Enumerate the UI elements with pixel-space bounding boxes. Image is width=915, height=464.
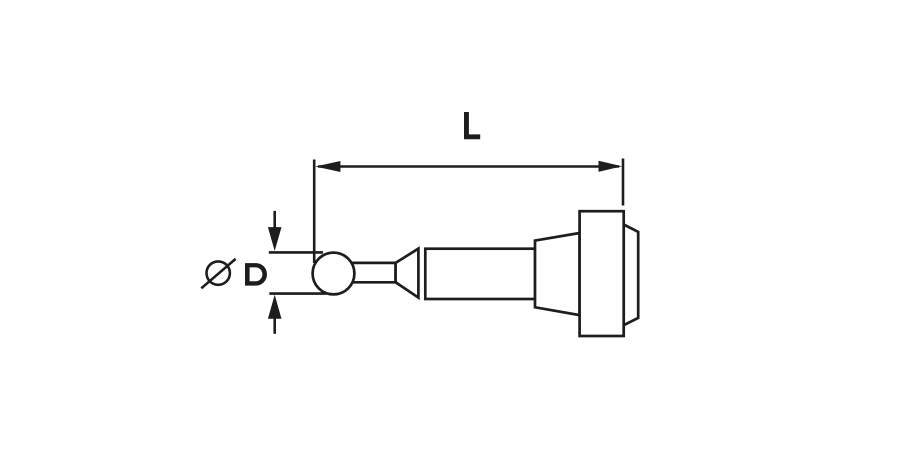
- label D: [245, 263, 267, 286]
- extension line left (L dimension, at ball left edge): [313, 160, 316, 264]
- upper tangent line of ball (diameter D): [269, 251, 323, 254]
- mounting flange (large rectangle): [580, 211, 624, 336]
- middle cylinder (stylus body): [425, 249, 535, 299]
- diameter symbol of label D: [201, 259, 235, 288]
- end cap bevel (right): [624, 225, 639, 326]
- lower tangent line of ball (diameter D): [269, 292, 326, 295]
- arrowhead right of L dimension: [599, 161, 623, 172]
- arrowhead left of L dimension: [315, 161, 340, 172]
- small cone (stem holder taper): [396, 249, 419, 298]
- down arrow of D dimension: [273, 211, 276, 230]
- stylus stem (thin shaft from ball): [351, 263, 396, 282]
- label L: [464, 112, 480, 139]
- extension line right (L dimension, at flange right edge): [622, 159, 625, 206]
- large cone (taper to flange): [535, 233, 580, 315]
- dimension line L: [318, 165, 619, 168]
- up arrow of D dimension: [273, 316, 276, 334]
- ball tip (measuring sphere): [313, 253, 355, 295]
